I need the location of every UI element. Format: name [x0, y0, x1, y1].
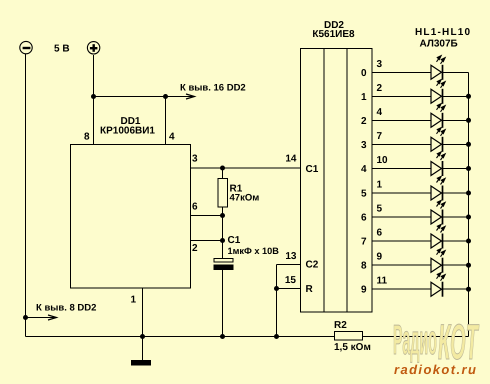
svg-text:3: 3 [361, 140, 367, 151]
svg-text:4: 4 [361, 164, 367, 175]
svg-text:К561ИЕ8: К561ИЕ8 [312, 29, 355, 40]
svg-text:10: 10 [377, 155, 389, 166]
svg-text:5: 5 [377, 204, 383, 215]
svg-text:К выв. 16 DD2: К выв. 16 DD2 [180, 83, 246, 94]
svg-text:47кОм: 47кОм [230, 193, 260, 204]
svg-text:1: 1 [130, 295, 136, 306]
svg-text:5: 5 [361, 189, 367, 200]
svg-text:radiokot.ru: radiokot.ru [394, 362, 477, 377]
svg-text:6: 6 [377, 228, 383, 239]
svg-text:9: 9 [377, 252, 383, 263]
svg-text:14: 14 [285, 154, 297, 165]
svg-text:13: 13 [285, 251, 297, 262]
svg-text:6: 6 [192, 202, 198, 213]
svg-text:4: 4 [169, 132, 175, 143]
svg-text:2: 2 [192, 243, 198, 254]
svg-text:7: 7 [377, 131, 383, 142]
svg-text:2: 2 [361, 116, 367, 127]
svg-text:R2: R2 [334, 320, 347, 331]
svg-text:1,5 кОм: 1,5 кОм [334, 342, 371, 353]
svg-text:КР1006ВИ1: КР1006ВИ1 [100, 126, 155, 137]
svg-text:C1: C1 [306, 164, 319, 175]
svg-text:К выв. 8 DD2: К выв. 8 DD2 [36, 303, 96, 314]
svg-text:4: 4 [377, 107, 383, 118]
svg-text:8: 8 [84, 132, 90, 143]
svg-text:1мкФ х 10В: 1мкФ х 10В [228, 246, 280, 256]
svg-text:15: 15 [285, 275, 297, 286]
svg-text:6: 6 [361, 213, 367, 224]
svg-text:2: 2 [377, 83, 383, 94]
svg-text:C1: C1 [228, 235, 241, 246]
svg-text:1: 1 [377, 180, 383, 191]
svg-text:9: 9 [361, 285, 367, 296]
svg-text:1: 1 [361, 92, 367, 103]
svg-text:C2: C2 [306, 260, 319, 271]
svg-text:Радио: Радио [393, 316, 437, 363]
svg-text:3: 3 [377, 59, 383, 70]
svg-text:11: 11 [377, 276, 388, 287]
svg-text:7: 7 [361, 237, 367, 248]
svg-text:5 В: 5 В [54, 44, 70, 55]
svg-text:R: R [306, 284, 314, 295]
svg-text:8: 8 [361, 261, 367, 272]
svg-text:0: 0 [361, 68, 367, 79]
svg-text:3: 3 [192, 154, 198, 165]
svg-text:АЛ307Б: АЛ307Б [420, 39, 458, 50]
svg-text:HL1-HL10: HL1-HL10 [415, 27, 471, 38]
